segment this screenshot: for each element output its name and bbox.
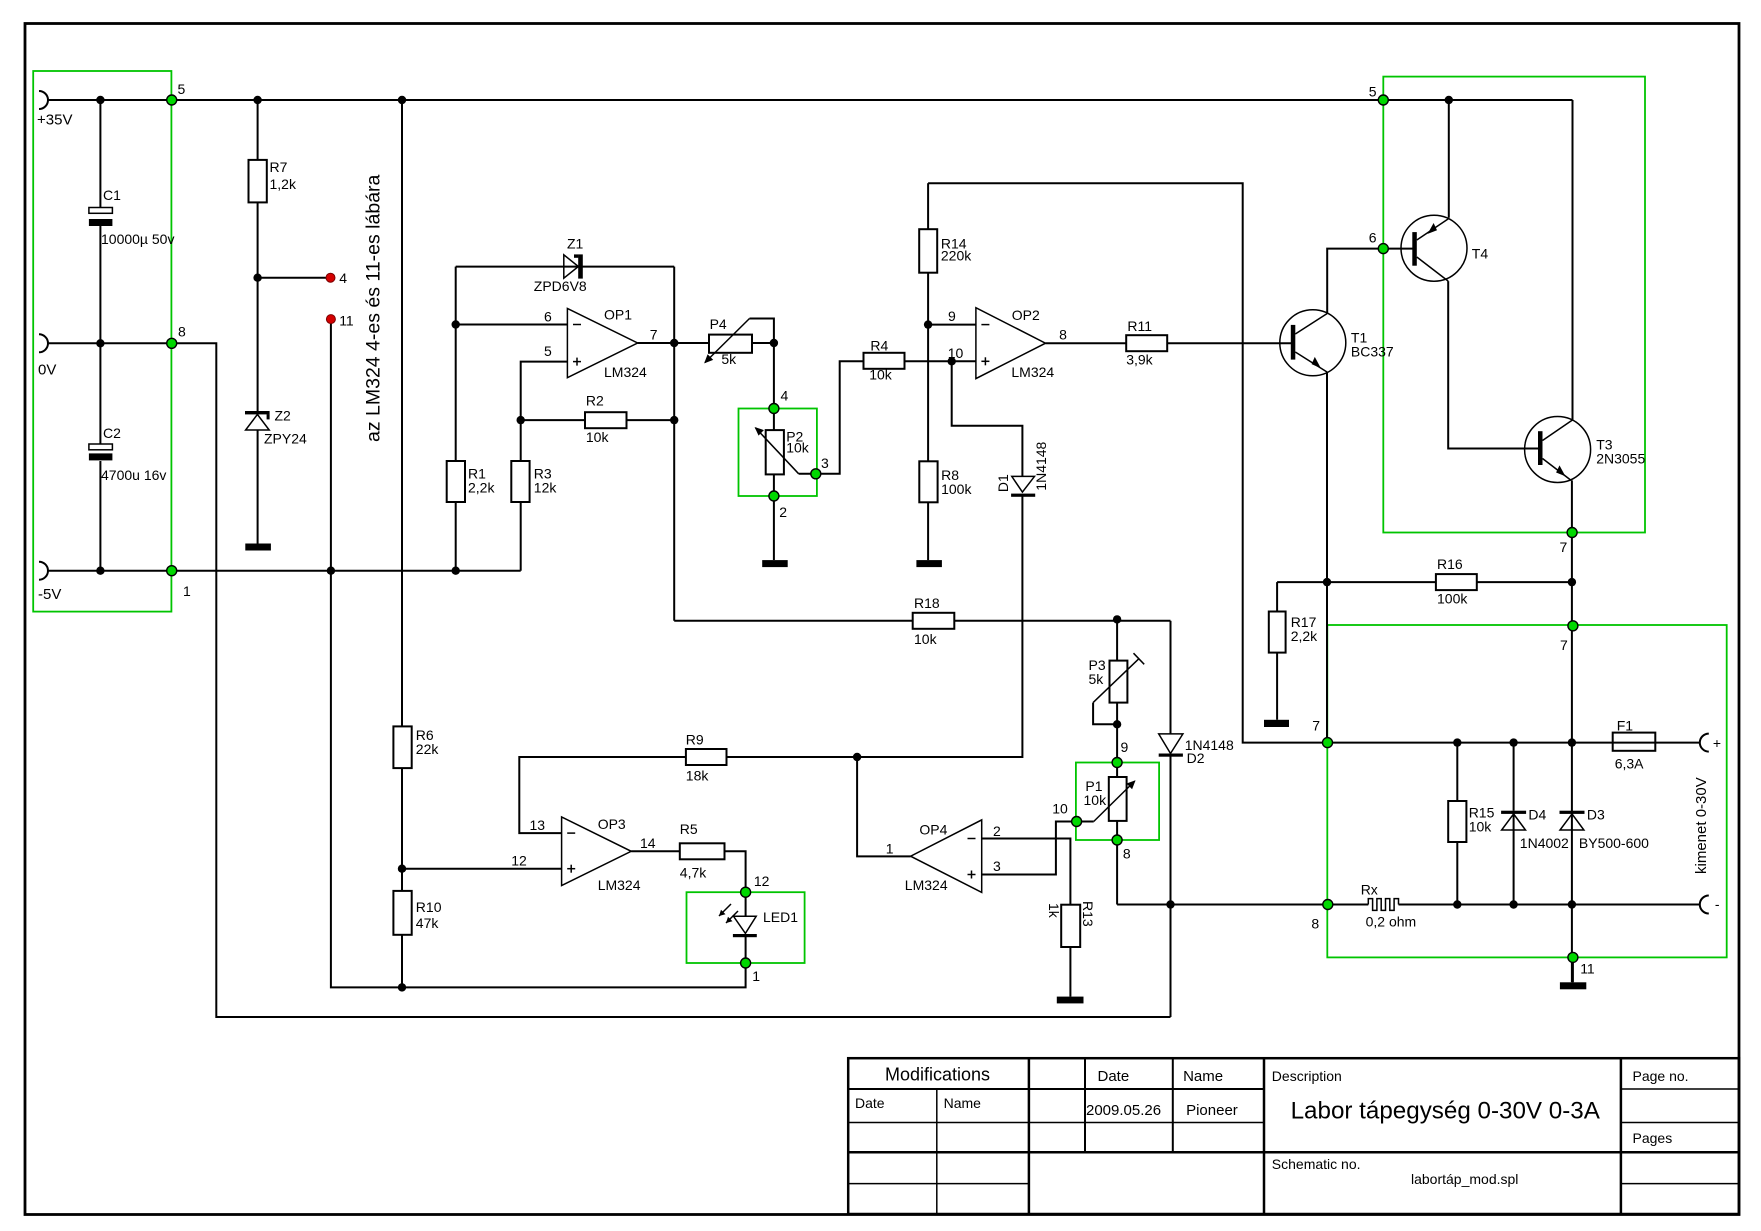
- wire P1 wiper to pin10: [1077, 821, 1094, 823]
- svg-text:100k: 100k: [941, 481, 972, 497]
- pin 12 LED1: [741, 887, 751, 897]
- svg-text:F1: F1: [1617, 718, 1634, 734]
- potentiometer P2: [756, 428, 810, 475]
- svg-text:R5: R5: [680, 821, 698, 837]
- resistor R7: [249, 160, 267, 203]
- svg-text:OP1: OP1: [604, 307, 632, 323]
- svg-text:R16: R16: [1437, 556, 1463, 572]
- svg-text:1: 1: [886, 841, 894, 857]
- wire D2 cathode to 0V rail: [1170, 757, 1172, 1018]
- wire R6 to R10: [401, 768, 403, 891]
- svg-text:10000µ 50v: 10000µ 50v: [101, 231, 174, 247]
- junction dot OP2 pin9: [924, 320, 932, 328]
- wire C2 bottom to -5V: [99, 461, 101, 571]
- pin 1 LED1: [741, 958, 751, 968]
- svg-text:10k: 10k: [586, 429, 610, 445]
- wire Z1 right leg to R18: [673, 267, 675, 621]
- wire -5V rail: [48, 570, 521, 572]
- wire R14 column: [927, 183, 929, 229]
- junction dot R6 R10: [398, 865, 406, 873]
- svg-text:Rx: Rx: [1361, 882, 1378, 898]
- capacitor C1: [89, 208, 113, 214]
- wire OP2 pin9 input: [928, 324, 976, 326]
- wire R9 row: [727, 756, 858, 758]
- wire R13 bottom to ground: [1069, 947, 1071, 997]
- svg-text:R10: R10: [416, 899, 442, 915]
- wire P4 wiper link: [750, 319, 774, 344]
- wire +35V to R6 column: [401, 100, 403, 726]
- wire feedback R14 to node7: [928, 183, 1327, 742]
- resistor R10: [393, 891, 411, 935]
- ground below R8: [916, 560, 942, 567]
- svg-text:8: 8: [1123, 845, 1131, 861]
- pin 6 right: [1378, 244, 1388, 254]
- wire R1 column: [455, 325, 457, 462]
- ground below kimenet: [1560, 982, 1586, 989]
- svg-text:-5V: -5V: [38, 586, 61, 603]
- svg-text:100k: 100k: [1437, 591, 1468, 607]
- green box T3 T4: [1383, 77, 1645, 533]
- potentiometer P4: [705, 316, 752, 367]
- wire R11 to T1: [1167, 342, 1293, 344]
- pin 1 left: [167, 566, 177, 576]
- ground below Z2: [245, 544, 271, 551]
- wire C1 bottom to 0V: [99, 226, 101, 343]
- svg-text:0V: 0V: [38, 362, 56, 379]
- svg-text:1: 1: [183, 583, 191, 599]
- svg-text:+35V: +35V: [37, 112, 72, 129]
- junction dots minus row: [1453, 900, 1461, 908]
- wire OP4 pin2 to R13: [982, 839, 1071, 905]
- zener diode Z1 ZPD6V8: [534, 236, 587, 295]
- wire D2 column: [1170, 621, 1172, 734]
- junction dot D2 minus row: [1166, 900, 1174, 908]
- svg-text:4,7k: 4,7k: [680, 865, 707, 881]
- junction dots plus row: [1453, 738, 1461, 746]
- svg-text:BC337: BC337: [1351, 344, 1394, 360]
- svg-text:R2: R2: [586, 393, 604, 409]
- svg-text:0,2 ohm: 0,2 ohm: [1366, 914, 1417, 930]
- wire kimenet pin11 to ground: [1572, 957, 1574, 982]
- wire C1 C2 column: [99, 100, 101, 208]
- svg-text:10k: 10k: [914, 631, 938, 647]
- capacitor C2: [89, 444, 113, 450]
- svg-text:4700u 16v: 4700u 16v: [101, 467, 166, 483]
- pin 8 left: [167, 338, 177, 348]
- junction dot R9 node: [853, 753, 861, 761]
- wire T1 collector to pin6: [1327, 249, 1383, 314]
- svg-text:7: 7: [1560, 637, 1568, 653]
- svg-text:D3: D3: [1587, 807, 1605, 823]
- resistor R17: [1269, 612, 1286, 653]
- wire R4 to OP2 plus: [905, 360, 976, 362]
- wire OP2 plus branch down: [952, 361, 1023, 476]
- wire R15 column: [1456, 743, 1458, 801]
- wire P2 bottom to ground: [773, 474, 775, 560]
- wire R16 left: [1277, 581, 1436, 583]
- wire D4 column: [1513, 743, 1515, 811]
- ground below P2: [762, 560, 788, 567]
- svg-text:6: 6: [544, 309, 552, 325]
- svg-text:7: 7: [650, 327, 658, 343]
- resistor R6: [393, 726, 411, 768]
- svg-text:7: 7: [1312, 718, 1320, 734]
- svg-text:3: 3: [993, 858, 1001, 874]
- resistor R11: [1126, 335, 1167, 351]
- svg-text:LM324: LM324: [604, 364, 647, 380]
- svg-text:az LM324 4-es és 11-es lábára: az LM324 4-es és 11-es lábára: [363, 174, 385, 442]
- junction dot P4 wiper: [770, 339, 778, 347]
- pin 10 P1: [1072, 817, 1082, 827]
- svg-text:2: 2: [779, 504, 787, 520]
- junction dot T1 emitter R16: [1323, 578, 1331, 586]
- wire minus output row: [1117, 904, 1368, 906]
- wire P2 wiper to pin3: [799, 473, 816, 475]
- svg-text:2,2k: 2,2k: [1291, 628, 1318, 644]
- wire OP4 pin3 to pin10: [982, 822, 1077, 875]
- junction dots top rail: [96, 96, 104, 104]
- wire D4 bottom: [1513, 814, 1515, 905]
- terminal 0V: [39, 334, 48, 352]
- green box power input: [33, 71, 171, 612]
- pin 8 P1: [1112, 835, 1122, 845]
- svg-text:OP3: OP3: [598, 816, 626, 832]
- resistor R13: [1061, 905, 1080, 947]
- svg-text:OP4: OP4: [919, 822, 947, 838]
- wire R8 bottom to ground: [927, 502, 929, 560]
- svg-text:5: 5: [178, 81, 186, 97]
- svg-text:Z1: Z1: [567, 236, 584, 252]
- op-amp OP4: [886, 820, 1001, 893]
- node 4 red dot: [326, 273, 335, 282]
- diode D3 BY500-600: [1560, 807, 1650, 852]
- wire R3 column: [520, 420, 522, 461]
- wire pin3 to R4: [816, 361, 864, 474]
- svg-text:47k: 47k: [416, 915, 440, 931]
- svg-text:Description: Description: [1272, 1068, 1342, 1084]
- wire P3 wiper link: [1093, 703, 1117, 725]
- wire LED1 cathode: [745, 937, 747, 963]
- wire Rx to minus terminal: [1399, 904, 1700, 906]
- junction dot R7 Z2 node: [253, 274, 261, 282]
- svg-text:D1: D1: [995, 474, 1011, 492]
- resistor R4: [864, 353, 905, 369]
- wire P4 right: [752, 342, 774, 344]
- svg-text:7: 7: [1560, 539, 1568, 555]
- svg-text:2009.05.26: 2009.05.26: [1086, 1102, 1161, 1119]
- svg-text:LED1: LED1: [763, 909, 798, 925]
- svg-text:1,2k: 1,2k: [270, 176, 297, 192]
- wire F1 to plus terminal: [1655, 742, 1700, 744]
- fuse F1: [1613, 718, 1656, 772]
- wire node 4 stub: [258, 277, 331, 279]
- wire R17 bottom to ground: [1276, 653, 1278, 720]
- terminal +35V: [39, 91, 48, 109]
- green box LED1: [687, 892, 805, 963]
- resistor R16: [1436, 574, 1477, 590]
- wire Z2 anode to ground: [257, 431, 259, 544]
- svg-text:6: 6: [1369, 230, 1377, 246]
- svg-text:Z2: Z2: [275, 408, 292, 424]
- resistor Rx 0,2 ohm meander: [1361, 882, 1416, 930]
- green box kimenet output: [1327, 625, 1726, 957]
- wire top +35V rail: [48, 99, 1573, 101]
- pin 4 P2: [769, 404, 779, 414]
- svg-text:3,9k: 3,9k: [1126, 352, 1153, 368]
- junction dots -5V rail: [96, 567, 104, 575]
- junction dot R2 right: [670, 416, 678, 424]
- wire R7 bottom to Z2: [257, 202, 259, 412]
- pin 7 kimenet left: [1323, 738, 1333, 748]
- junction dot OP1 out: [670, 339, 678, 347]
- wire Z1 left leg: [455, 267, 457, 325]
- green box P1: [1076, 763, 1159, 841]
- svg-text:10k: 10k: [1084, 792, 1108, 808]
- svg-text:4: 4: [339, 270, 347, 286]
- svg-text:P4: P4: [710, 316, 727, 332]
- wire LED1 anode: [745, 892, 747, 916]
- TITLE BLOCK: [848, 1058, 1739, 1214]
- wire R18 row: [674, 620, 913, 622]
- svg-text:5k: 5k: [1089, 671, 1105, 687]
- resistor R15: [1448, 801, 1466, 842]
- svg-text:10k: 10k: [869, 367, 893, 383]
- svg-text:R13: R13: [1080, 901, 1096, 927]
- svg-text:2: 2: [993, 823, 1001, 839]
- svg-text:Modifications: Modifications: [885, 1065, 990, 1085]
- transistor T1 BC337: [1280, 310, 1394, 376]
- resistor R8: [919, 461, 937, 502]
- svg-text:LM324: LM324: [598, 877, 641, 893]
- wire P3 bottom to pin9: [1116, 703, 1118, 777]
- junction dots 0V rail: [96, 339, 104, 347]
- svg-text:11: 11: [339, 313, 354, 329]
- svg-text:4: 4: [781, 388, 789, 404]
- wire T3 emitter down: [1571, 480, 1573, 904]
- wire -5V to LED1 cathode return: [331, 571, 746, 988]
- terminal + output: [1700, 734, 1709, 752]
- op-amp OP2: [948, 307, 1067, 380]
- node 11 red dot: [326, 315, 335, 324]
- svg-text:220k: 220k: [941, 248, 972, 264]
- junction dot P3 wiper: [1113, 720, 1121, 728]
- svg-text:D2: D2: [1187, 750, 1205, 766]
- wire R14 bottom to pin9 and R8: [927, 273, 929, 462]
- pin 9 P1: [1112, 758, 1122, 768]
- wire P1 bottom to pin8: [1116, 821, 1118, 905]
- svg-text:10k: 10k: [786, 440, 810, 456]
- trimmer P3: [1089, 653, 1145, 702]
- wire R1 bottom: [455, 502, 457, 571]
- wire R16 right: [1477, 581, 1572, 583]
- wire T4 base from pin6: [1383, 248, 1414, 250]
- potentiometer P1: [1084, 777, 1135, 822]
- wire node 11 to -5V and LED return: [330, 319, 332, 571]
- wire OP4 output up: [857, 757, 911, 856]
- op-amp OP3: [511, 816, 656, 893]
- svg-text:Schematic no.: Schematic no.: [1272, 1156, 1361, 1172]
- svg-text:Pioneer: Pioneer: [1186, 1102, 1238, 1119]
- svg-text:Page no.: Page no.: [1633, 1068, 1689, 1084]
- title block frame: [848, 1058, 1739, 1214]
- resistor R14: [919, 229, 937, 273]
- svg-text:+: +: [1713, 735, 1721, 751]
- svg-text:9: 9: [1121, 739, 1129, 755]
- wire D1 cathode down: [857, 496, 1022, 757]
- svg-text:1: 1: [752, 968, 760, 984]
- wire P3 column top: [1116, 619, 1118, 660]
- diode D4 1N4002: [1501, 807, 1569, 852]
- svg-text:ZPD6V8: ZPD6V8: [534, 278, 587, 294]
- wire T4 emitter from rail: [1448, 100, 1450, 218]
- terminal - output: [1700, 896, 1709, 914]
- transistor T3 2N3055: [1525, 417, 1646, 483]
- ground below R17: [1264, 720, 1289, 727]
- wire T4 collector to T3 base: [1448, 281, 1540, 448]
- svg-text:8: 8: [1311, 916, 1319, 932]
- svg-text:R11: R11: [1127, 318, 1152, 334]
- wire 0V rail: [48, 343, 1171, 1017]
- pin 8 kimenet left: [1323, 900, 1333, 910]
- wire R3 bottom: [520, 502, 522, 571]
- wire OP2 output to T1 base: [1046, 342, 1127, 344]
- svg-text:11: 11: [1580, 961, 1595, 977]
- svg-text:D4: D4: [1528, 807, 1546, 823]
- junction dot OP2 plus: [948, 357, 956, 365]
- svg-text:LM324: LM324: [1011, 364, 1054, 380]
- svg-text:Pages: Pages: [1633, 1130, 1673, 1146]
- green box P2: [739, 409, 817, 497]
- svg-text:C2: C2: [103, 425, 121, 441]
- junction dot R18 P3: [1113, 615, 1121, 623]
- wire R15 bottom: [1456, 842, 1458, 905]
- svg-text:BY500-600: BY500-600: [1579, 835, 1649, 851]
- resistor R5: [680, 843, 725, 859]
- pin 2 P2: [769, 491, 779, 501]
- svg-text:Date: Date: [855, 1095, 885, 1111]
- zener diode Z2 ZPY24: [245, 408, 307, 447]
- svg-text:12k: 12k: [534, 480, 558, 496]
- wire OP1 pin6 input: [456, 324, 568, 326]
- diode D1 1N4148: [995, 441, 1049, 496]
- wire plus output row: [1328, 742, 1613, 744]
- svg-text:10k: 10k: [1469, 819, 1493, 835]
- svg-text:12: 12: [754, 873, 770, 889]
- wire OP3 output to R5: [631, 850, 680, 852]
- svg-text:1N4148: 1N4148: [1033, 441, 1049, 490]
- svg-text:18k: 18k: [686, 768, 710, 784]
- wire T1 emitter down to node7: [1326, 372, 1328, 742]
- svg-text:10: 10: [1052, 800, 1068, 816]
- wire R10 bottom: [401, 935, 403, 988]
- pin 5 right: [1378, 95, 1388, 105]
- svg-text:2N3055: 2N3055: [1596, 451, 1645, 467]
- op-amp OP1: [544, 307, 658, 381]
- svg-text:8: 8: [178, 324, 186, 340]
- svg-text:R9: R9: [686, 732, 704, 748]
- svg-text:-: -: [1715, 896, 1720, 912]
- wire OP1 output to P4: [638, 342, 709, 344]
- svg-text:Name: Name: [1183, 1068, 1223, 1085]
- resistor R18: [913, 613, 955, 629]
- svg-text:R18: R18: [914, 595, 940, 611]
- svg-text:LM324: LM324: [905, 877, 948, 893]
- resistor R1: [447, 461, 465, 502]
- junction dot R16 right: [1568, 578, 1576, 586]
- wire R18 right to D2: [954, 620, 1170, 622]
- svg-text:labortáp_mod.spl: labortáp_mod.spl: [1411, 1171, 1518, 1187]
- wire C2 top: [99, 343, 101, 444]
- wire R7 top: [257, 100, 259, 160]
- junction dot OP1 pin6 node: [452, 320, 460, 328]
- svg-text:OP2: OP2: [1012, 307, 1040, 323]
- svg-text:Labor tápegység 0-30V 0-3A: Labor tápegység 0-30V 0-3A: [1291, 1098, 1601, 1125]
- svg-text:R7: R7: [270, 159, 288, 175]
- svg-text:5: 5: [544, 343, 552, 359]
- ground below R13: [1057, 997, 1084, 1004]
- wire T3 collector drop: [1572, 100, 1574, 420]
- LED LED1: [719, 904, 798, 937]
- pin 7 T3: [1567, 528, 1577, 538]
- svg-text:5k: 5k: [721, 351, 737, 367]
- svg-text:3: 3: [821, 455, 829, 471]
- resistor R9: [686, 749, 727, 765]
- svg-text:ZPY24: ZPY24: [264, 431, 307, 447]
- svg-text:1N4002: 1N4002: [1520, 835, 1569, 851]
- junction dot R10 bottom: [398, 983, 406, 991]
- wire R17 column: [1276, 582, 1278, 611]
- terminal -5V: [39, 562, 48, 580]
- junction dot R2 left: [517, 416, 525, 424]
- svg-text:8: 8: [1059, 327, 1067, 343]
- svg-text:22k: 22k: [416, 741, 440, 757]
- svg-text:R4: R4: [870, 338, 888, 354]
- svg-text:9: 9: [948, 308, 956, 324]
- resistor R3: [511, 461, 529, 502]
- pin 5 left: [167, 95, 177, 105]
- svg-text:14: 14: [640, 835, 656, 851]
- wire R2 right: [627, 419, 675, 421]
- svg-text:kimenet 0-30V: kimenet 0-30V: [1693, 777, 1710, 874]
- wire OP3 pin12 input: [402, 868, 562, 870]
- resistor R2: [585, 412, 627, 428]
- wire R2 row: [521, 419, 585, 421]
- svg-text:Date: Date: [1098, 1068, 1130, 1085]
- pin 3 P2: [811, 469, 821, 479]
- wire Z1 top: [456, 266, 675, 268]
- wire R9 left to OP3 pin13: [519, 757, 686, 833]
- svg-text:12: 12: [511, 853, 527, 869]
- svg-text:13: 13: [530, 817, 546, 833]
- svg-text:1k: 1k: [1046, 903, 1062, 919]
- svg-text:Name: Name: [944, 1095, 982, 1111]
- wire OP1 pin5 input: [521, 362, 568, 421]
- wire P2 top column: [773, 343, 775, 430]
- svg-text:2,2k: 2,2k: [468, 480, 495, 496]
- wire output column to ground: [1571, 905, 1573, 983]
- pin 11 kimenet bottom: [1568, 952, 1578, 962]
- wire R5 to LED1: [725, 851, 746, 892]
- diode D2 1N4148: [1159, 734, 1234, 766]
- svg-text:C1: C1: [103, 187, 121, 203]
- svg-text:T4: T4: [1472, 246, 1489, 262]
- pin 7 kimenet top: [1568, 621, 1578, 631]
- transistor T4 PNP: [1401, 215, 1488, 281]
- svg-text:5: 5: [1369, 84, 1377, 100]
- svg-text:6,3A: 6,3A: [1615, 756, 1644, 772]
